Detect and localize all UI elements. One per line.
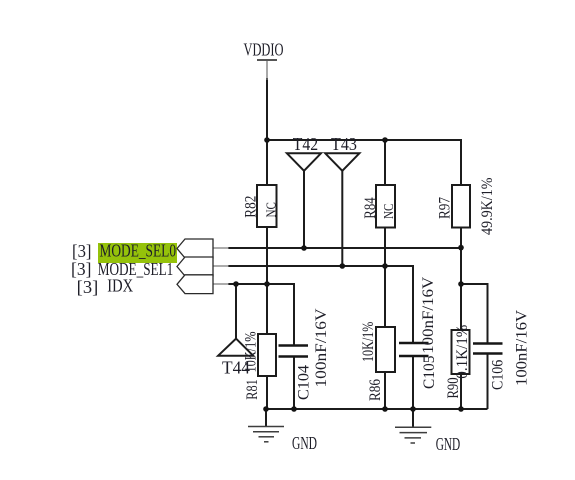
svg-text:VDDIO: VDDIO bbox=[244, 40, 284, 60]
svg-text:R97: R97 bbox=[437, 197, 454, 219]
svg-text:T43: T43 bbox=[331, 134, 357, 154]
svg-text:R90: R90 bbox=[445, 378, 462, 399]
svg-text:IDX: IDX bbox=[107, 276, 133, 296]
svg-text:T42: T42 bbox=[293, 134, 318, 154]
svg-text:GND: GND bbox=[292, 433, 317, 453]
svg-text:R82: R82 bbox=[242, 196, 259, 218]
svg-text:MODE_SEL0: MODE_SEL0 bbox=[100, 241, 177, 261]
svg-text:C104: C104 bbox=[296, 365, 313, 400]
svg-text:100nF/16V: 100nF/16V bbox=[420, 276, 437, 353]
svg-text:100nF/16V: 100nF/16V bbox=[313, 308, 330, 387]
svg-text:[3]: [3] bbox=[77, 277, 99, 297]
svg-text:GND: GND bbox=[436, 434, 461, 454]
svg-text:49.9K/1%: 49.9K/1% bbox=[479, 178, 496, 236]
svg-text:[3]: [3] bbox=[72, 241, 92, 261]
svg-text:0.1K/1%: 0.1K/1% bbox=[454, 325, 471, 379]
svg-text:NC: NC bbox=[265, 202, 280, 217]
svg-text:NC: NC bbox=[382, 204, 397, 219]
svg-text:C105: C105 bbox=[421, 356, 438, 389]
svg-text:10K/1%: 10K/1% bbox=[360, 322, 377, 362]
svg-text:R81: R81 bbox=[244, 379, 261, 399]
svg-text:10K/1%: 10K/1% bbox=[242, 332, 259, 373]
svg-text:R84: R84 bbox=[362, 197, 379, 218]
svg-text:100nF/16V: 100nF/16V bbox=[514, 310, 531, 386]
svg-text:R86: R86 bbox=[367, 379, 384, 401]
svg-text:C106: C106 bbox=[490, 360, 507, 390]
